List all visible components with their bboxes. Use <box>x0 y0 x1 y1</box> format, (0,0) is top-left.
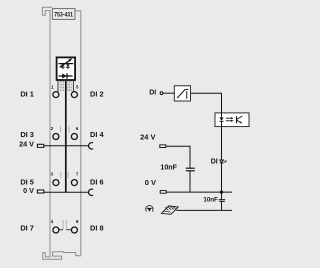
row 2 stubs <box>61 126 70 133</box>
svg-text:DI 1: DI 1 <box>20 89 34 98</box>
0V plug left <box>37 190 43 193</box>
0V jumper contact arc <box>89 189 94 195</box>
24V wire right <box>166 146 190 168</box>
svg-text:7: 7 <box>76 172 79 177</box>
row 3 stubs <box>61 172 68 178</box>
terminal 1 <box>53 92 59 98</box>
electronics box U1 <box>57 57 76 80</box>
svg-text:DI: DI <box>149 90 156 97</box>
junction <box>220 191 223 194</box>
svg-text:753-431: 753-431 <box>54 12 73 19</box>
svg-text:8: 8 <box>76 219 79 224</box>
phototransistor Q1 <box>237 116 243 123</box>
module outline <box>42 7 80 259</box>
capacitor C1 <box>186 168 195 192</box>
svg-text:10nF: 10nF <box>203 197 218 204</box>
terminal 4 <box>53 227 59 233</box>
svg-text:1: 1 <box>51 84 54 89</box>
shield clamp symbol <box>161 206 178 214</box>
DI status LED <box>220 160 227 163</box>
svg-text:5: 5 <box>76 84 79 89</box>
label box 753-431 <box>52 9 75 20</box>
terminal 2 <box>53 134 59 140</box>
wire to optocoupler <box>191 93 222 113</box>
svg-text:DI 6: DI 6 <box>90 177 104 186</box>
wire to 0V <box>221 163 223 192</box>
0V rail right <box>166 191 232 193</box>
svg-text:24 V: 24 V <box>19 140 34 149</box>
terminal 5 <box>71 92 77 98</box>
0V rail <box>44 191 89 193</box>
terminal 7 <box>71 180 77 186</box>
protection diode D3 <box>59 73 73 78</box>
terminal 3 <box>53 180 59 186</box>
svg-text:DI 2: DI 2 <box>90 89 104 98</box>
LED pair D1 D2 <box>58 58 73 69</box>
internal bus connections <box>58 81 73 92</box>
24V plug right <box>160 145 166 148</box>
svg-text:DI 3: DI 3 <box>20 130 34 139</box>
filter symbol <box>177 89 189 101</box>
wire <box>163 92 174 94</box>
left channel labels <box>20 89 34 232</box>
row 4 stubs <box>59 220 71 229</box>
svg-text:0 V: 0 V <box>145 178 156 187</box>
right channel labels <box>90 89 104 232</box>
optocoupler box U3 <box>215 113 249 127</box>
shield line <box>176 209 232 211</box>
svg-text:2: 2 <box>51 126 54 131</box>
earth symbol <box>146 205 154 211</box>
DI input terminal <box>160 92 163 95</box>
coupling arrows <box>226 117 234 122</box>
svg-text:DI 4: DI 4 <box>90 130 104 139</box>
svg-text:24 V: 24 V <box>140 133 155 142</box>
0V plug right <box>160 191 166 194</box>
pin numbers <box>51 84 80 224</box>
24V jumper contact arc <box>89 143 94 149</box>
svg-text:0 V: 0 V <box>23 186 34 195</box>
24V plug left <box>37 144 43 147</box>
terminal 8 <box>71 227 77 233</box>
common line <box>65 81 67 192</box>
svg-text:6: 6 <box>76 126 79 131</box>
optocoupler LED <box>219 113 223 127</box>
capacitor C2 <box>219 192 225 210</box>
svg-text:DI 8: DI 8 <box>90 223 104 232</box>
filter box U2 <box>174 86 190 101</box>
svg-text:10nF: 10nF <box>160 164 177 172</box>
svg-text:I: I <box>185 91 189 102</box>
svg-text:4: 4 <box>51 219 54 224</box>
svg-text:3: 3 <box>51 172 54 177</box>
wire below optocoupler <box>221 127 223 160</box>
24V rail <box>44 145 89 147</box>
terminal 6 <box>71 134 77 140</box>
svg-text:DI: DI <box>211 158 218 165</box>
svg-text:DI 7: DI 7 <box>20 223 34 232</box>
